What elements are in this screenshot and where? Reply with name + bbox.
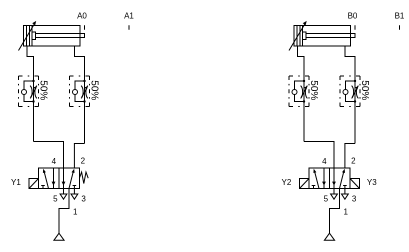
svg-text:4: 4 (322, 157, 327, 166)
right cell path 1 to 2 (arrow) (69, 172, 73, 189)
svg-text:Y1: Y1 (11, 178, 21, 187)
svg-text:50%: 50% (89, 80, 100, 100)
svg-text:50%: 50% (38, 80, 49, 100)
throttle arcs VB0 (301, 86, 308, 99)
svg-text:50%: 50% (359, 80, 370, 100)
flow control valve WA0 frame (70, 76, 90, 107)
return spring (80, 172, 89, 183)
flow control valve VB0 bypass branch (295, 81, 305, 102)
throttle adjust arrow WA0 (82, 88, 87, 97)
svg-text:Y3: Y3 (367, 178, 377, 187)
wire cylinder rod port to flow valve (345, 46, 355, 144)
left cell blocked port 5 (T) (312, 186, 316, 189)
svg-text:5: 5 (324, 195, 329, 204)
left cell path 2 to 3 (arrow) (53, 168, 55, 189)
solenoid Y1 (29, 179, 39, 189)
flow control valve VA0 bypass branch (24, 81, 34, 102)
right cell blocked port 3 (T) (73, 186, 77, 189)
5/2-way valve body (39, 168, 80, 189)
throttle adjust arrow WB0 (352, 88, 357, 97)
svg-text:1: 1 (73, 208, 78, 217)
compressed air source (54, 233, 64, 240)
svg-text:3: 3 (81, 195, 86, 204)
sensor tick B1 (399, 25, 401, 30)
svg-text:3: 3 (352, 195, 357, 204)
throttle adjust arrow VB0 (301, 88, 306, 97)
left cell path 1 to 4 (arrow) (44, 172, 48, 189)
solenoid Y2 (300, 179, 310, 189)
svg-text:1: 1 (343, 208, 348, 217)
right cell blocked port 3 (T) (343, 186, 347, 189)
cylinder B piston (299, 26, 301, 47)
junction node top WA0 (83, 80, 85, 82)
cylinder A piston rod (36, 34, 85, 38)
exhaust port 3 silencer (71, 189, 78, 200)
compressed air source (324, 233, 334, 240)
flow control valve WB0 frame (340, 76, 360, 107)
check valve ball VA0 (22, 90, 27, 95)
junction node bottom WB0 (354, 100, 356, 102)
svg-text:B0: B0 (348, 12, 358, 21)
svg-text:A1: A1 (124, 12, 134, 21)
svg-text:Y2: Y2 (282, 178, 292, 187)
valve cell divider (58, 168, 60, 189)
throttle arcs WA0 (81, 86, 88, 99)
junction node bottom WA0 (83, 100, 85, 102)
left cell path 2 to 3 (arrow) (323, 168, 325, 189)
exhaust port 3 silencer (342, 189, 349, 200)
cushion adjust arrow (cylinder A) (19, 24, 35, 50)
svg-text:A0: A0 (77, 12, 87, 21)
cylinder A piston (29, 26, 31, 47)
cushion adjust arrow (cylinder B) (289, 24, 305, 50)
svg-text:5: 5 (53, 195, 58, 204)
left cell path 1 to 4 (arrow) (315, 172, 319, 189)
cylinder B body (294, 26, 351, 47)
sensor tick A1 (128, 25, 130, 30)
throttle adjust arrow VA0 (31, 88, 36, 97)
throttle arcs VA0 (30, 86, 37, 99)
check valve ball WA0 (73, 90, 78, 95)
throttle arcs WB0 (352, 86, 359, 99)
check valve ball VB0 (292, 90, 297, 95)
wire port 1 to air supply (330, 189, 340, 234)
junction node bottom VB0 (303, 100, 305, 102)
cylinder A end cap line (26, 26, 28, 47)
cylinder B end cap line (296, 26, 298, 47)
junction node top VB0 (303, 80, 305, 82)
junction node top VA0 (32, 80, 34, 82)
flow control valve VB0 frame (289, 76, 309, 107)
wire cylinder rod port to flow valve (75, 46, 85, 144)
5/2-way valve body (309, 168, 350, 189)
svg-text:B1: B1 (395, 12, 405, 21)
svg-text:50%: 50% (308, 80, 319, 100)
junction node bottom VA0 (32, 100, 34, 102)
wire cylinder cap port to flow valve (298, 46, 305, 142)
flow control valve VA0 frame (19, 76, 39, 107)
check valve ball WB0 (343, 90, 348, 95)
sensor tick B0 (354, 25, 356, 30)
right cell path 4 to 5 (arrow) (63, 168, 65, 189)
cylinder B rod flange (303, 32, 307, 40)
svg-text:4: 4 (52, 157, 57, 166)
exhaust port 5 silencer (60, 189, 67, 200)
wire flow valve to valve port 4 (304, 142, 334, 169)
cylinder B piston rod (306, 34, 355, 38)
svg-text:2: 2 (81, 157, 86, 166)
wire flow valve to valve port 2 (345, 144, 355, 169)
wire cylinder cap port to flow valve (27, 46, 34, 142)
right cell path 1 to 2 (arrow) (340, 172, 344, 189)
sensor tick A0 (84, 25, 86, 30)
junction node top WB0 (354, 80, 356, 82)
cylinder A body (24, 26, 81, 47)
flow control valve WA0 bypass branch (75, 81, 85, 102)
wire port 1 to air supply (59, 189, 69, 234)
cylinder A rod flange (32, 32, 36, 40)
wire flow valve to valve port 2 (74, 144, 84, 169)
left cell blocked port 5 (T) (41, 186, 45, 189)
valve cell divider (329, 168, 331, 189)
svg-text:2: 2 (351, 157, 356, 166)
wire flow valve to valve port 4 (34, 142, 64, 169)
exhaust port 5 silencer (331, 189, 338, 200)
flow control valve WB0 bypass branch (346, 81, 356, 102)
right cell path 4 to 5 (arrow) (333, 168, 335, 189)
solenoid Y3 (350, 179, 360, 189)
